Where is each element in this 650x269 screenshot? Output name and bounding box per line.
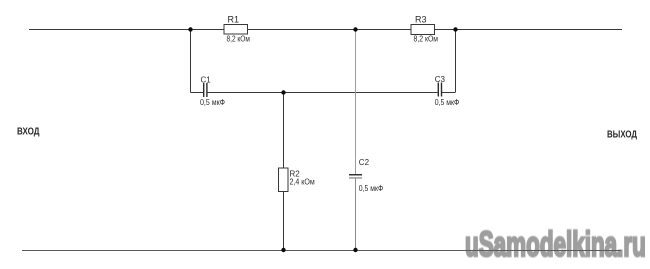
svg-text:ВЫХОД: ВЫХОД	[607, 129, 637, 141]
svg-text:C3: C3	[435, 75, 446, 84]
watermark uSamodelkina.ru	[465, 226, 646, 262]
svg-text:8,2 кОм: 8,2 кОм	[414, 35, 439, 44]
svg-text:0,5 мкФ: 0,5 мкФ	[200, 98, 225, 107]
svg-text:R3: R3	[415, 15, 427, 25]
capacitor C1	[200, 76, 225, 108]
svg-text:0,5 мкФ: 0,5 мкФ	[359, 184, 384, 193]
resistor R1	[224, 15, 250, 44]
junction bottom / R2	[281, 248, 285, 252]
junction C-row / R2	[281, 90, 285, 94]
svg-text:0,5 мкФ: 0,5 мкФ	[435, 98, 460, 107]
wire vertical R2 upper (C row to R2)	[283, 93, 285, 169]
wire vertical C2 upper (top junction to C2, crosses C row)	[355, 30, 357, 175]
wire top horizontal	[29, 29, 622, 31]
wire vertical R2 lower (R2 to bottom line)	[283, 192, 285, 251]
svg-text:ВХОД: ВХОД	[17, 126, 40, 138]
svg-text:R1: R1	[228, 15, 240, 25]
wire bottom horizontal	[22, 250, 621, 252]
capacitor C2	[349, 158, 383, 193]
junction top-middle	[353, 27, 357, 31]
svg-text:8,2 кОм: 8,2 кОм	[227, 35, 250, 44]
wire middle horizontal right segment	[442, 92, 455, 94]
resistor R3	[411, 15, 438, 44]
capacitor C3	[435, 75, 460, 107]
wire vertical right (top line to C row)	[455, 30, 457, 93]
svg-text:C2: C2	[359, 158, 370, 167]
svg-text:2,4 кОм: 2,4 кОм	[290, 178, 315, 187]
junction top-left	[188, 27, 192, 31]
wire middle horizontal center segment	[208, 92, 438, 94]
junction bottom / C2	[353, 248, 357, 252]
wire vertical left (top line to C row)	[190, 30, 192, 93]
svg-text:C1: C1	[201, 76, 212, 85]
wire vertical C2 lower (C2 to bottom line)	[355, 179, 357, 251]
wire middle horizontal left segment	[191, 92, 204, 94]
resistor R2	[279, 168, 315, 192]
junction top-right	[453, 27, 457, 31]
